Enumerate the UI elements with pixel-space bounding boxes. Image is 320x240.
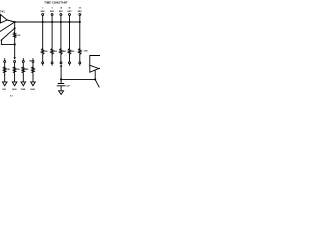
svg-text:SEC: SEC [50, 11, 55, 13]
stub below contact 1 [42, 64, 44, 65]
wire R9 to arrow [22, 75, 24, 82]
switch S1b contact 3 [60, 14, 62, 16]
svg-text:SEC: SEC [59, 11, 64, 13]
switch S1c contact 4 [69, 62, 71, 64]
stub below contact 2 [51, 64, 53, 65]
switch S1c contact 3 [60, 62, 62, 64]
svg-text:2M: 2M [17, 69, 20, 71]
svg-text:500K: 500K [30, 89, 35, 91]
switch S1a wiper arrow [14, 57, 16, 60]
wire wiper to capacitor node [60, 67, 62, 80]
node rail junction 1 [42, 21, 44, 23]
switch position label 60 SEC [78, 8, 83, 14]
wire down from output node [14, 22, 16, 33]
svg-text:741: 741 [0, 9, 5, 13]
ground arrow 3 [21, 82, 26, 86]
op-amp U1 [0, 15, 7, 23]
stub above contact 1 [4, 59, 6, 61]
node tap [14, 27, 16, 29]
wire diagonal exit [95, 80, 99, 87]
switch S1a contact 3 [22, 61, 24, 63]
resistor R4 [60, 49, 62, 55]
node rail junction 2 [51, 21, 53, 23]
op-amp U2 [90, 65, 99, 72]
node rail junction 5 [79, 21, 81, 23]
svg-text:1 µF: 1 µF [66, 85, 71, 87]
ground arrow 4 [31, 82, 36, 86]
wire contact 5 drop [79, 16, 81, 49]
stub below contact 4 [69, 64, 71, 65]
svg-text:SEC: SEC [41, 11, 46, 13]
svg-text:2M: 2M [54, 51, 57, 53]
resistor R7 [4, 63, 6, 76]
switch position label 5 SEC [50, 8, 55, 14]
wire R1 to wiper [14, 38, 16, 58]
wire output rail [7, 20, 80, 22]
node output junction [14, 21, 16, 23]
wire R4 to contact [60, 54, 62, 61]
switch position label 30 SEC [67, 8, 72, 14]
resistor R5 [68, 49, 70, 55]
wire R5 to contact [69, 54, 71, 61]
resistor R10 [32, 63, 34, 76]
node rail junction 4 [68, 21, 70, 23]
svg-text:4M: 4M [25, 68, 28, 71]
resistor R8 [13, 63, 15, 76]
svg-text:50K: 50K [2, 89, 6, 91]
svg-text:6M: 6M [72, 51, 75, 53]
switch S1b contact 1 [42, 14, 44, 16]
ground arrow C1 [59, 91, 64, 95]
wire contact 1 drop [42, 16, 44, 49]
wire U2 output [99, 68, 100, 70]
wire node to cap [60, 79, 62, 83]
svg-text:5: 5 [52, 8, 53, 10]
wire R7 to arrow [4, 75, 6, 82]
svg-text:SEC: SEC [67, 11, 72, 13]
switch position label 1 SEC [41, 8, 46, 14]
node bend blob [1, 40, 3, 42]
ground arrow 1 [2, 82, 7, 86]
capacitor C1 [57, 84, 65, 86]
switch S1c wiper arrow [60, 64, 62, 67]
svg-text:1M: 1M [7, 69, 10, 71]
wire diagonal bypass [1, 28, 14, 44]
svg-text:10M: 10M [84, 50, 88, 52]
node bus junction [94, 78, 96, 80]
wire op-amp U2 input from right [90, 56, 100, 66]
svg-text:SEC: SEC [78, 11, 83, 13]
switch S1c contact 5 [79, 62, 81, 64]
stub above contact 3 [22, 59, 24, 61]
wire capacitor bus [61, 78, 95, 80]
svg-text:S1: S1 [10, 95, 14, 97]
ground arrow 2 [12, 82, 17, 86]
wire diagonal to left edge [0, 22, 15, 32]
wire lower rail [1, 43, 15, 45]
node capacitor junction [60, 78, 62, 80]
switch S1a contact 2 [14, 61, 16, 63]
wire R10 to arrow [32, 75, 34, 82]
stub below contact 5 [79, 64, 81, 65]
svg-text:60: 60 [79, 8, 81, 10]
wire contact 4 drop [69, 16, 71, 49]
svg-text:1: 1 [42, 8, 43, 10]
node lower rail junction [14, 43, 16, 45]
wire contact 3 drop [60, 16, 62, 49]
switch position label 10 SEC [59, 8, 64, 14]
switch S1b contact 5 [79, 14, 81, 16]
wire R2 to contact [42, 54, 44, 61]
wire cap to ground [60, 86, 62, 91]
wire R3 to contact [51, 54, 53, 61]
wire R6 to contact [79, 54, 81, 61]
resistor R9 [22, 63, 24, 76]
svg-text:1M: 1M [45, 51, 48, 53]
switch S1a contact 1 [4, 61, 6, 63]
svg-text:100K: 100K [12, 89, 17, 91]
svg-text:1M: 1M [29, 61, 32, 63]
svg-text:250K: 250K [21, 89, 26, 91]
svg-text:4M: 4M [63, 50, 66, 53]
resistor R6 [79, 49, 81, 55]
switch S1b contact 4 [69, 14, 71, 16]
wire R8 to arrow [14, 75, 16, 82]
svg-text:TIME CONSTANT: TIME CONSTANT [44, 0, 68, 4]
switch S1b contact 2 [51, 14, 53, 16]
svg-text:10: 10 [60, 8, 62, 10]
switch S1a contact 4 [32, 61, 34, 63]
svg-text:1M: 1M [17, 35, 20, 37]
resistor R3 [51, 49, 53, 55]
resistor R1 [14, 33, 16, 38]
svg-text:30: 30 [69, 8, 71, 10]
wire bus up to U2 [94, 71, 96, 80]
node rail junction 3 [60, 21, 62, 23]
wire contact 2 drop [51, 16, 53, 49]
resistor R2 [42, 49, 44, 55]
switch S1c contact 2 [51, 62, 53, 64]
stub above contact 4 [32, 59, 34, 61]
switch S1c contact 1 [42, 62, 44, 64]
